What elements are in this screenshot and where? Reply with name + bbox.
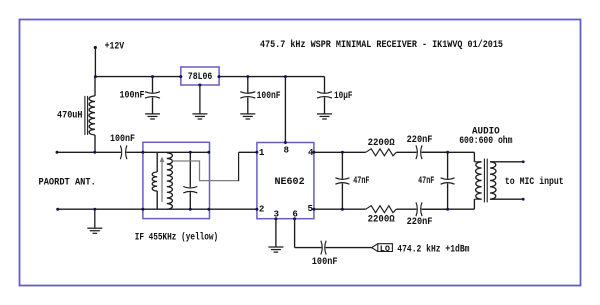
svg-text:100nF: 100nF	[312, 257, 338, 268]
svg-text:600:600 ohm: 600:600 ohm	[459, 135, 512, 147]
svg-text:NE602: NE602	[275, 177, 305, 188]
svg-text:474.2 kHz +1dBm: 474.2 kHz +1dBm	[397, 243, 469, 255]
svg-text:to MIC input: to MIC input	[505, 176, 564, 188]
svg-text:100nF: 100nF	[257, 91, 281, 102]
svg-text:47nF: 47nF	[418, 176, 434, 187]
svg-text:5: 5	[308, 203, 314, 214]
svg-text:PAORDT ANT.: PAORDT ANT.	[39, 178, 96, 189]
svg-text:2200Ω: 2200Ω	[368, 215, 395, 226]
svg-text:2200Ω: 2200Ω	[368, 138, 395, 149]
svg-text:+12V: +12V	[105, 41, 125, 52]
svg-text:220nF: 220nF	[407, 217, 433, 228]
svg-text:475.7 kHz WSPR MINIMAL RECEIVE: 475.7 kHz WSPR MINIMAL RECEIVER - IK1WVQ…	[260, 39, 503, 51]
svg-text:100nF: 100nF	[110, 134, 135, 145]
svg-text:2: 2	[259, 203, 265, 214]
svg-text:LO: LO	[380, 245, 390, 254]
svg-text:IF 455KHz (yellow): IF 455KHz (yellow)	[135, 231, 219, 243]
svg-text:1: 1	[259, 147, 265, 158]
svg-text:78L06: 78L06	[188, 72, 213, 83]
svg-text:10µF: 10µF	[334, 91, 353, 102]
svg-text:47nF: 47nF	[353, 176, 369, 187]
svg-text:8: 8	[284, 144, 290, 155]
svg-text:220nF: 220nF	[407, 135, 433, 146]
svg-text:470uH: 470uH	[57, 110, 83, 121]
svg-text:100nF: 100nF	[120, 90, 145, 101]
